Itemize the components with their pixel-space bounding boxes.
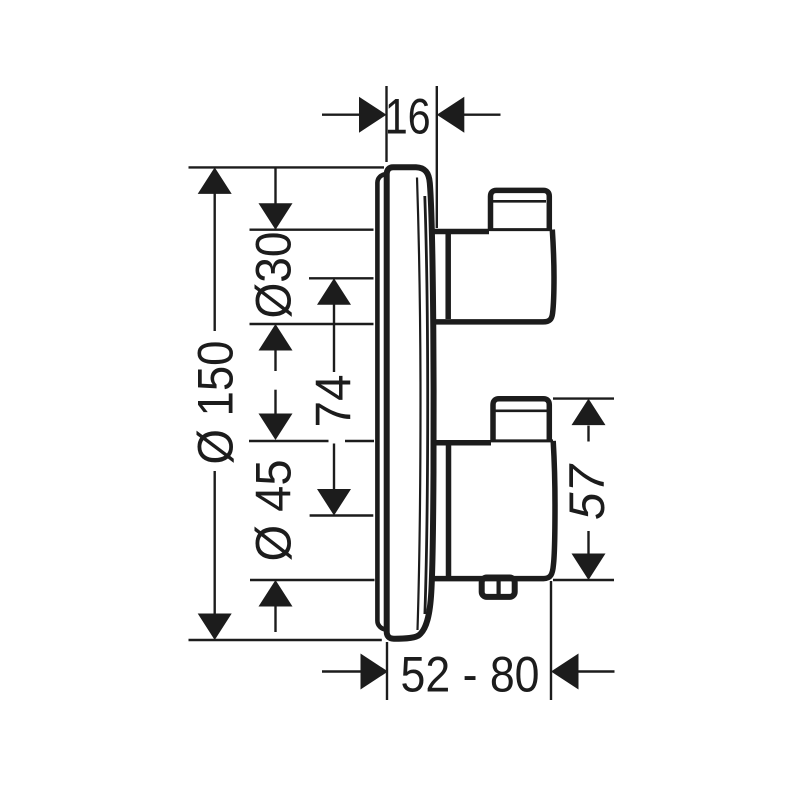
svg-text:16: 16 — [385, 89, 431, 145]
lower handle body right edge and bottom — [431, 441, 555, 579]
back plate (wall flange, edge view) — [377, 174, 407, 629]
arrow 16 right (points left) — [437, 97, 465, 133]
arrow 52-80 left (points right) — [361, 654, 389, 690]
dim D30: upper arrow tail — [274, 167, 276, 204]
arrow 74 bottom (points down) — [317, 489, 351, 516]
dim 74: top extension line (upper handle axis) — [309, 277, 374, 279]
svg-text:Ø30: Ø30 — [246, 232, 302, 319]
dim 57: upper tail — [587, 426, 589, 442]
arrow D30 bottom (points up) — [259, 324, 293, 351]
dim 57: bottom extension line (body bottom, right) — [553, 579, 614, 581]
arrow 74 top (points up) — [317, 278, 351, 305]
dim 52-80: left tail — [322, 670, 362, 672]
upper handle body right edge and bottom — [432, 230, 554, 322]
svg-text:Ø 45: Ø 45 — [246, 460, 302, 562]
dim D30: bottom extension line — [250, 323, 374, 325]
dim 16: left tail — [322, 113, 361, 115]
arrow D45 bottom (points up) — [259, 580, 293, 607]
dim 52-80: right tail — [579, 670, 615, 672]
svg-text:74: 74 — [306, 375, 362, 428]
dim 74: upper segment — [333, 304, 335, 372]
dim 74: lower segment — [333, 444, 335, 490]
arrow D30 top (points down) — [259, 203, 293, 230]
svg-text:Ø 150: Ø 150 — [188, 341, 244, 465]
dim D150: bottom extension line — [189, 639, 382, 641]
upper handle body rear edge — [445, 233, 451, 319]
dim 16: right tail — [463, 113, 500, 115]
lower handle: body top line behind cap — [491, 439, 553, 442]
dim 16: right extension line — [436, 86, 438, 228]
dim D45: lower arrow tail — [274, 606, 276, 632]
arrow D45 top (points down) — [259, 414, 293, 441]
arrow D150 bottom (points down) — [198, 614, 232, 641]
lower handle body rear edge — [446, 444, 452, 576]
dim D150: dimension line upper segment — [213, 193, 215, 331]
svg-text:57: 57 — [559, 463, 615, 520]
arrow 57 top (points up) — [572, 399, 606, 426]
arrow 52-80 right (points left) — [551, 654, 579, 690]
dim D150: top extension line — [189, 166, 385, 168]
svg-text:52 - 80: 52 - 80 — [401, 647, 540, 703]
dim D30: lower arrow tail — [274, 349, 276, 371]
lower handle cap inner line — [494, 409, 548, 412]
dim D45: top extension line (lower neck top) — [249, 440, 374, 442]
dim 52-80: right extension line — [550, 581, 552, 700]
arrow 16 left (points right) — [359, 97, 387, 133]
lower handle cap outline — [493, 399, 549, 442]
arrow 57 bottom (points down) — [572, 554, 606, 581]
dim 16: left extension line — [385, 86, 387, 162]
upper handle: body top line behind cap — [489, 228, 552, 231]
dim 57: lower tail — [587, 531, 589, 554]
dim 57: top extension line (cap top) — [553, 397, 614, 399]
upper handle: neck top line — [432, 229, 489, 235]
front escutcheon plate (edge view, filled white over back plate) — [387, 167, 434, 638]
upper handle cap inner line — [492, 200, 546, 203]
dim D30: top extension line (neck top) — [250, 228, 374, 230]
dim D150: dimension line lower segment — [213, 471, 215, 615]
lower handle: neck top line — [432, 440, 491, 446]
lower handle tab divider — [497, 578, 501, 597]
arrow D150 top (points up) — [198, 167, 232, 194]
upper handle cap outline — [491, 190, 550, 231]
dim 74: bottom extension line (lower handle axis) — [310, 514, 374, 516]
dim D45: bottom extension line (left) — [250, 579, 375, 581]
plate rim inner line — [425, 196, 428, 614]
dim D45: upper arrow tail — [274, 390, 276, 414]
dim 52-80: left extension line — [386, 642, 388, 700]
lower handle bottom tab — [482, 578, 515, 597]
plate face inner edge line — [417, 178, 421, 631]
